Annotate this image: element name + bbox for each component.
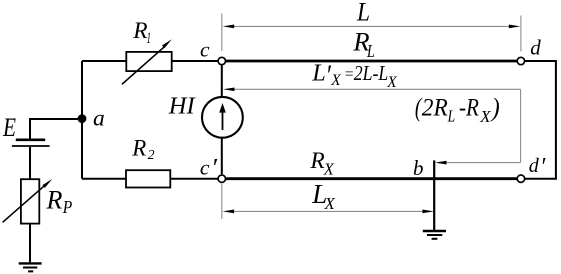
svg-text:-R: -R — [459, 95, 479, 122]
svg-text:L: L — [356, 0, 370, 26]
svg-text:a: a — [93, 105, 105, 131]
svg-text:d: d — [529, 155, 540, 177]
svg-text:2L-L: 2L-L — [354, 61, 389, 85]
svg-text:X: X — [479, 107, 491, 126]
svg-text:b: b — [413, 156, 424, 180]
svg-text:P: P — [62, 197, 73, 217]
svg-text:R: R — [132, 18, 147, 44]
svg-text:R: R — [309, 148, 324, 174]
svg-text:R: R — [131, 135, 146, 160]
svg-text:c: c — [200, 156, 210, 180]
svg-text:c: c — [200, 38, 210, 62]
svg-text:X: X — [386, 74, 397, 91]
svg-text:′: ′ — [211, 154, 218, 181]
svg-text:): ) — [490, 92, 500, 122]
svg-text:d: d — [530, 35, 541, 59]
svg-text:E: E — [2, 112, 16, 142]
svg-text:1: 1 — [147, 30, 152, 47]
svg-text:L: L — [311, 60, 325, 86]
svg-text:R: R — [46, 185, 63, 214]
svg-text:X: X — [323, 160, 335, 179]
svg-text:′: ′ — [540, 153, 545, 180]
svg-text:2R: 2R — [422, 95, 448, 122]
svg-text:=: = — [344, 66, 355, 83]
svg-text:L: L — [366, 41, 375, 61]
svg-text:2: 2 — [148, 147, 155, 162]
svg-text:L: L — [447, 107, 455, 126]
svg-text:X: X — [324, 194, 336, 213]
svg-text:X: X — [330, 72, 341, 89]
svg-text:HI: HI — [168, 93, 197, 120]
